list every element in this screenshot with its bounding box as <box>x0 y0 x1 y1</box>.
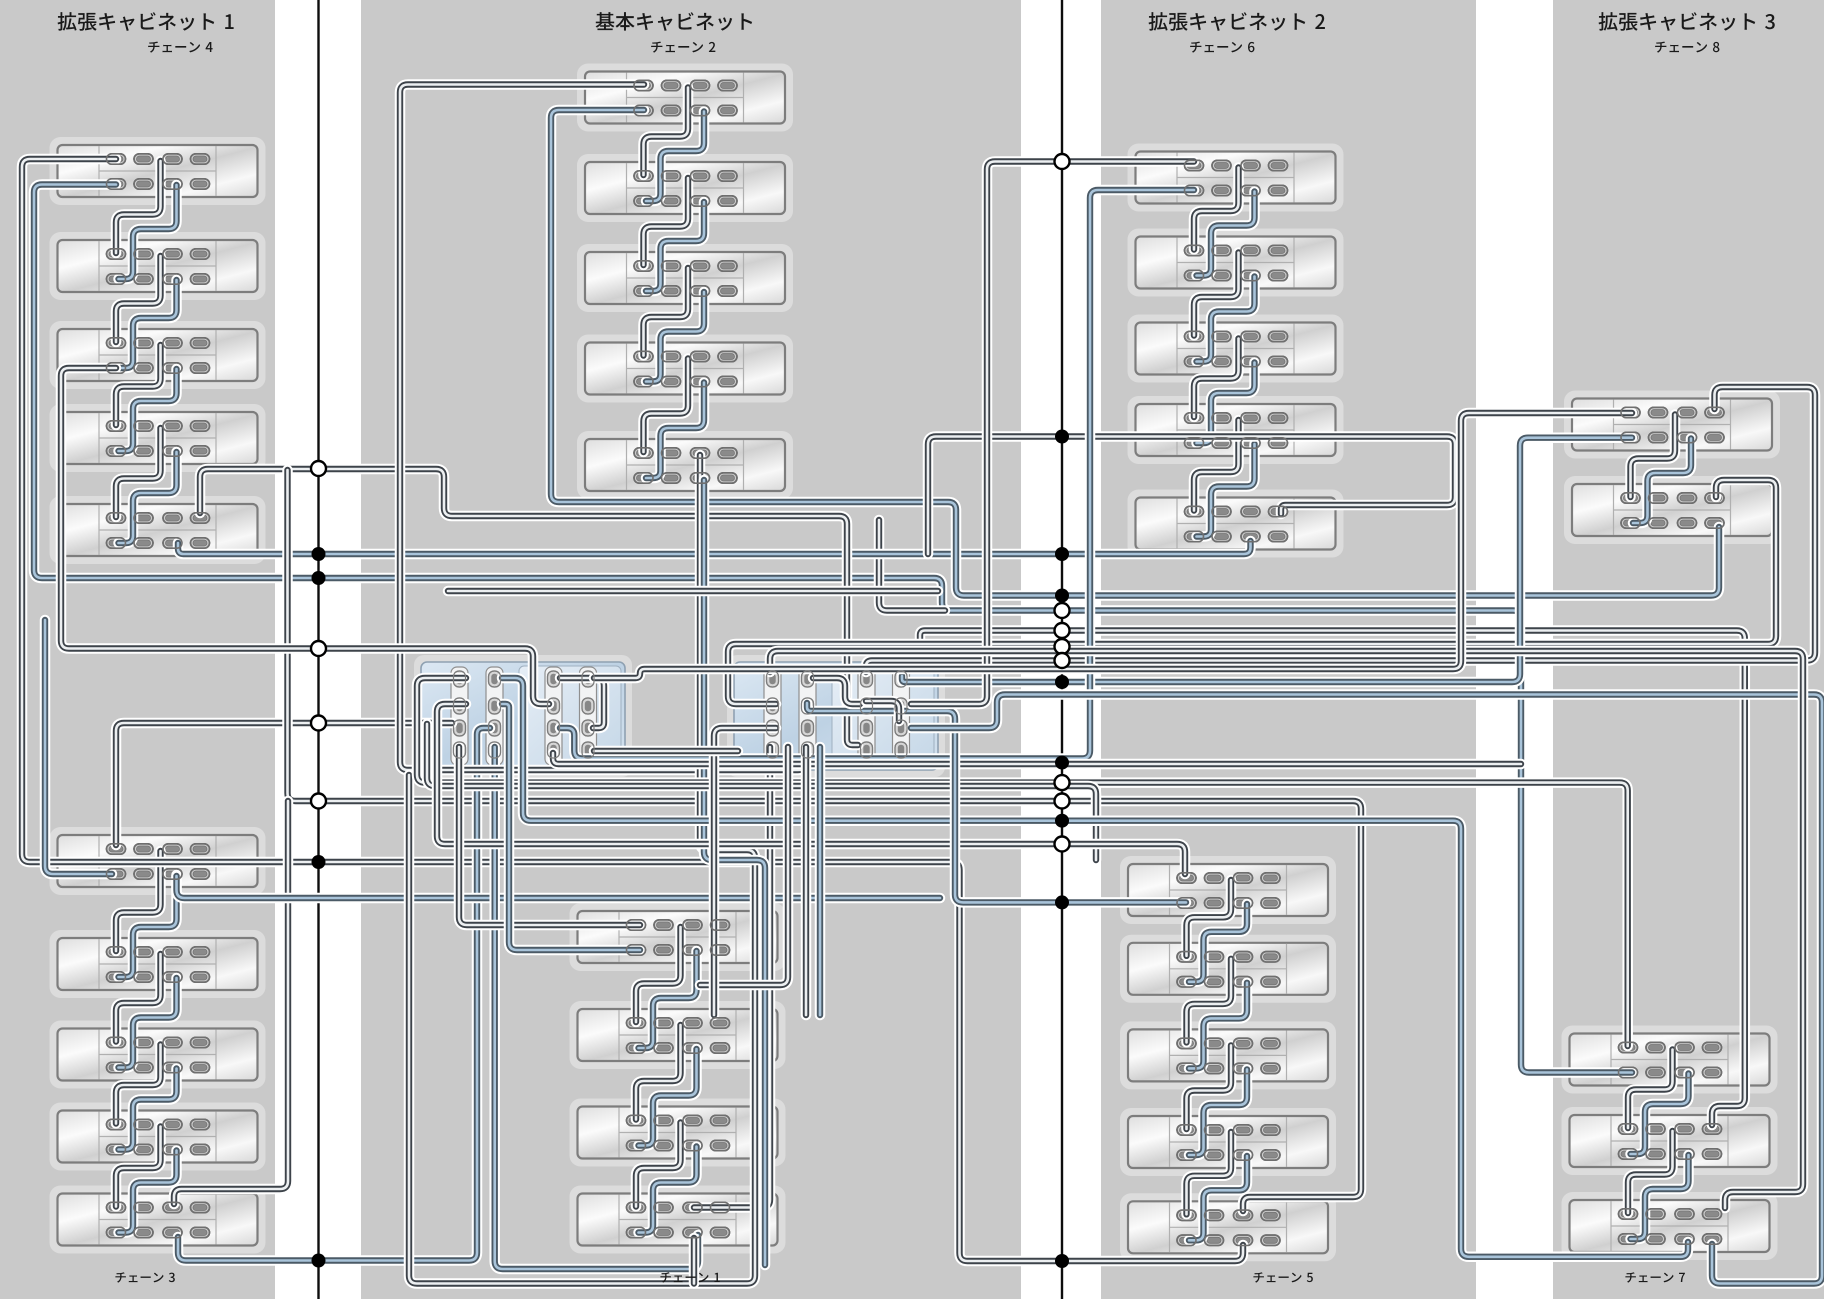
disk shelf cabinet1-chain3-2 <box>50 930 266 998</box>
wire chain2-S5 r1p3 loop <box>409 455 755 1284</box>
wire mid run <box>448 586 938 597</box>
disk shelf base-chain2-1 <box>577 64 793 132</box>
wire chain2-S5 r2p3 down <box>704 480 765 1265</box>
crossing dot (open) on line 2 at y=844 <box>1055 837 1070 852</box>
wire chain6 link1 b <box>1197 192 1255 276</box>
wire chain3 link2 a <box>116 954 161 1042</box>
label chain 3 <box>115 1272 174 1282</box>
junction dot (filled) on line 2 at y=436.5 <box>1055 430 1069 444</box>
wire controller2-B2 to chain5-S1 r2p1 <box>807 703 1186 902</box>
cabinet band: base cabinet <box>361 0 1021 1299</box>
wire chain3 link3 b <box>119 1069 177 1150</box>
label base cabinet title <box>596 12 753 31</box>
wire chain2 link3 a <box>644 268 689 356</box>
wire controller2 drop run <box>700 747 788 985</box>
wire chain3 link3 a <box>116 1045 161 1124</box>
wire controller2 drop <box>801 747 812 1015</box>
disk shelf cabinet2-chain6-2 <box>1128 229 1344 297</box>
wire chain5 link3 a <box>1187 1045 1232 1129</box>
wire controller1 jumper C1-D3 <box>560 678 604 728</box>
label cabinet 1 title <box>58 12 234 31</box>
junction dot (filled) on line 2 at y=554 <box>1055 547 1069 561</box>
label cabinet 3 title <box>1599 12 1775 31</box>
disk shelf cabinet2-chain5-3 <box>1120 1021 1336 1089</box>
wire chain6 link4 b <box>1197 444 1255 537</box>
wire chain5 link1 b <box>1189 904 1247 982</box>
wire controller1-B1 to chain7-S3 r2p3 <box>502 678 1688 1257</box>
junction dot (filled) on line 2 at y=902.4 <box>1055 895 1069 909</box>
disk shelf cabinet1-chain4-4 <box>50 404 266 472</box>
disk shelf cabinet2-chain5-5 <box>1120 1193 1336 1261</box>
disk shelf cabinet3-chain7-1 <box>1562 1026 1778 1094</box>
disk shelf base-chain1-4 <box>570 1186 786 1254</box>
wire controller1-D1 to chain8-S1 r1p1 <box>594 413 1632 678</box>
label chain 8 <box>1655 41 1719 52</box>
wire to chain6-S5 r1p4 <box>928 437 1455 555</box>
wire chain2-S1 r1p1 to controller2-B4 <box>400 85 806 771</box>
disk shelf cabinet2-chain5-2 <box>1120 935 1336 1003</box>
wire chain8 link1 b <box>1633 439 1691 524</box>
junction dot (filled) on line 1 at y=862 <box>312 855 326 869</box>
junction dot (filled) on line 2 at y=762.6 <box>1055 756 1069 770</box>
cabinet band: expansion cabinet 3 <box>1553 0 1824 1299</box>
disk shelf cabinet2-chain6-4 <box>1128 396 1344 464</box>
wire controller1-D4 run <box>594 746 738 757</box>
disk shelf base-chain2-2 <box>577 154 793 222</box>
wire chain5 link4 b <box>1189 1156 1247 1240</box>
wire chain3 link4 b <box>119 1151 177 1233</box>
disk shelf cabinet1-chain3-5 <box>50 1186 266 1254</box>
wire chain4-S5 r2p3 to chain6-S5 r2p3 <box>178 541 1251 554</box>
wire chain5 link3 b <box>1189 1069 1247 1155</box>
wire chain5 link2 b <box>1189 983 1247 1069</box>
crossing dot (open) on line 1 at y=801 <box>311 794 326 809</box>
disk shelf cabinet1-chain4-5 <box>50 496 266 564</box>
wire chain7 link1 a <box>1628 1050 1673 1129</box>
wire controller2-A4 to chain1-S4 r1p3 <box>694 747 770 1208</box>
wire chain6 link2 b <box>1197 277 1255 362</box>
crossing dot (open) on line 2 at y=782.6 <box>1055 775 1070 790</box>
disk shelf base-chain1-2 <box>570 1001 786 1069</box>
disk shelf cabinet1-chain4-1 <box>50 137 266 205</box>
wire chain4 link4 a <box>116 428 161 517</box>
wire controller1-A2 to chain5-S1 r1p1 <box>437 704 1185 874</box>
cabinet band: expansion cabinet 1 <box>0 0 275 1299</box>
wire chain5 link4 a <box>1187 1132 1232 1214</box>
crossing dot (open) on line 2 at y=646.5 <box>1055 639 1070 654</box>
wire chain4-S3 r2p1 to controller1-C2 <box>61 368 549 704</box>
junction dot (filled) on line 1 at y=578 <box>312 571 326 585</box>
crossing dot (open) on line 1 at y=468.5 <box>311 461 326 476</box>
wire chain7 link2 a <box>1628 1131 1673 1213</box>
wire chain1 link3 b <box>639 1147 697 1233</box>
wire controller1-B4 to chain1-S4 r2p3 <box>495 747 698 1269</box>
label chain 2 <box>651 41 715 52</box>
wire controller2-A1 to chain7-S3 r1p4 <box>770 651 1803 1208</box>
wire branch stub <box>879 520 945 611</box>
wire controller2-A3 drop <box>714 728 776 1015</box>
wire chain5 link1 a <box>1187 880 1232 956</box>
disk shelf cabinet3-chain8-2 <box>1564 476 1780 544</box>
wire chain6 link3 a <box>1194 339 1239 418</box>
wire chain4 link3 a <box>116 345 161 425</box>
disk shelf base-chain1-3 <box>570 1099 786 1167</box>
wire chain3 link2 b <box>119 978 177 1068</box>
crossing dot (open) on line 2 at y=610.5 <box>1055 603 1070 618</box>
wire chain1 link2 a <box>636 1025 681 1120</box>
wire chain6 link3 b <box>1197 363 1255 444</box>
wire chain2 link1 a <box>644 88 689 176</box>
crossing dot (open) on line 1 at y=723 <box>311 716 326 731</box>
wire chain4 link3 b <box>119 369 177 451</box>
wire to chain3-S1 r2p1 <box>45 620 112 874</box>
disk shelf cabinet2-chain5-4 <box>1120 1108 1336 1176</box>
wire chain4 link2 a <box>116 256 161 342</box>
wire controller1-B2 to chain1-S1 r2p1 <box>502 704 640 950</box>
crossing dot (open) on line 2 at y=660.5 <box>1055 653 1070 668</box>
junction dot (filled) on line 2 at y=820.7 <box>1055 814 1069 828</box>
wire chain2 link2 b <box>646 202 704 291</box>
wire chain8 link1 a <box>1631 415 1676 498</box>
wire controller1-A3 to chain3-S1 r1p1 <box>116 723 452 845</box>
wire chain3 link1 b <box>119 875 177 977</box>
wire chain7 link2 b <box>1631 1155 1689 1239</box>
wire chain6 link1 a <box>1194 168 1239 250</box>
wire chain3 link4 a <box>116 1127 161 1207</box>
label chain 4 <box>148 41 212 52</box>
wire chain4-S1 r1p1 to chain5-S5 r2p3 <box>22 159 1243 1261</box>
wire chain1 link1 a <box>636 927 681 1022</box>
cabinet boundary line 1 <box>317 0 319 1299</box>
junction dot (filled) on line 2 at y=682 <box>1055 675 1069 689</box>
disk shelf cabinet1-chain4-3 <box>50 321 266 389</box>
wire controller2-A2 to chain8-S2 r1p4 <box>728 480 1776 704</box>
wire chain6 link4 a <box>1194 420 1239 511</box>
disk shelf cabinet1-chain3-1 <box>50 827 266 895</box>
wire controller2-D2 to chain6-S1 r1p1 <box>911 162 1194 705</box>
crossing dot (open) on line 2 at y=630.5 <box>1055 623 1070 638</box>
crossing dot (open) on line 1 at y=648.5 <box>311 641 326 656</box>
disk shelf base-chain2-3 <box>577 244 793 312</box>
wire controller2-D3 to chain7-S3 r2p4 <box>911 695 1822 1284</box>
wire chain1 link2 b <box>639 1049 697 1146</box>
wire chain3-S5 r2p3 to controller1-B3 <box>178 728 490 1261</box>
wire chain7 link1 b <box>1631 1074 1689 1155</box>
label cabinet 2 title <box>1149 12 1325 31</box>
wire chain2 link4 a <box>644 359 689 453</box>
wire chain2-S1 r2p1 to chain8-S2 r2p4 <box>551 110 1719 596</box>
wire controller1-A1 to chain7-S1 r1p1 <box>417 678 1628 1046</box>
wire chain4 link1 b <box>119 185 177 279</box>
disk shelf cabinet1-chain4-2 <box>50 232 266 300</box>
wire chain5 link2 a <box>1187 959 1232 1043</box>
wire chain2 link4 b <box>646 383 704 479</box>
wire controller2 jumper B1-C2 <box>813 678 860 704</box>
disk shelf base-chain1-1 <box>570 903 786 971</box>
disk shelf base-chain2-5 <box>577 431 793 499</box>
disk shelf base-chain2-4 <box>577 335 793 403</box>
wire chain4-S1 r2p1 to chain7-S1 r2p1 <box>34 185 1632 1073</box>
wire chain4 link2 b <box>119 280 177 368</box>
wire chain4 link1 a <box>116 161 161 253</box>
wire chain6 link2 a <box>1194 253 1239 336</box>
disk shelf cabinet3-chain7-3 <box>1562 1192 1778 1260</box>
wire controller2 jumper <box>866 701 899 721</box>
wire controller2-C1 to chain8-S1 r1p4 <box>866 387 1815 672</box>
junction dot (filled) on line 1 at y=554 <box>312 547 326 561</box>
disk shelf cabinet2-chain6-5 <box>1128 490 1344 558</box>
wire chain3 link1 a <box>116 851 161 951</box>
wire chain2 link3 b <box>646 292 704 382</box>
disk shelf cabinet3-chain8-1 <box>1564 391 1780 459</box>
controller controller 2 <box>727 655 945 777</box>
label chain 5 <box>1253 1272 1312 1282</box>
disk shelf cabinet1-chain3-3 <box>50 1021 266 1089</box>
junction dot (filled) on line 2 at y=595.5 <box>1055 589 1069 603</box>
disk shelf cabinet1-chain3-4 <box>50 1103 266 1171</box>
controller controller 1 <box>414 655 632 777</box>
wire to chain3-S5 r1p3 <box>174 801 288 1204</box>
junction dot (filled) on line 1 at y=1260.5 <box>312 1254 326 1268</box>
wire chain4 link4 b <box>119 452 177 543</box>
label chain 7 <box>1625 1272 1684 1282</box>
wire controller1-C3 to chain6-S1 r2p1 <box>560 190 1194 759</box>
label chain 1 <box>660 1272 719 1282</box>
label chain 6 <box>1190 41 1254 52</box>
wire controller2 drop <box>815 747 826 1015</box>
crossing dot (open) on line 2 at y=801 <box>1055 794 1070 809</box>
crossing dot (open) on line 2 at y=161.5 <box>1055 154 1070 169</box>
wire controller1-C4 run <box>553 753 1521 764</box>
disk shelf cabinet2-chain6-3 <box>1128 315 1344 383</box>
wire chain1 link3 a <box>636 1123 681 1207</box>
wire controller2-D1 to chain8-S1 r2p1 <box>902 438 1632 682</box>
wire chain3-S1 r2p3 run <box>177 876 941 898</box>
wire to chain5-S5 r1p3 <box>288 470 1362 1211</box>
wire chain4-S5 r1p4 to controller2 <box>200 469 858 745</box>
wire controller1-A4 to chain1-S1 r1p1 <box>459 747 640 925</box>
cabinet boundary line 2 <box>1061 0 1063 1299</box>
port rings overlay <box>107 80 1725 1245</box>
wire chain2 link1 b <box>646 112 704 202</box>
wire chain2 link2 a <box>644 178 689 265</box>
disk shelf cabinet2-chain6-1 <box>1128 144 1344 212</box>
wire chain1 link1 b <box>639 951 697 1048</box>
disk shelf cabinet2-chain5-1 <box>1120 856 1336 924</box>
wire branch run <box>427 724 1096 860</box>
cabinet band: expansion cabinet 2 <box>1101 0 1476 1299</box>
junction dot (filled) on line 2 at y=1261 <box>1055 1254 1069 1268</box>
wire to chain7-S2 r1p4 <box>920 631 1745 1126</box>
wire branch to chain1-S4 <box>689 1238 700 1284</box>
disk shelf cabinet3-chain7-2 <box>1562 1107 1778 1175</box>
